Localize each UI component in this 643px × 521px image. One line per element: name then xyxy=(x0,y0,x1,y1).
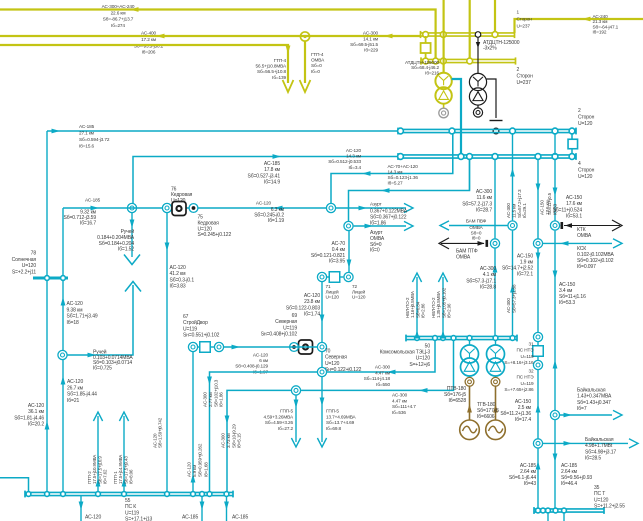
feeder ПТП-2 xyxy=(97,416,99,492)
svg-text:АС-120: АС-120 xyxy=(85,515,101,521)
node ⊚ СтройДвор right xyxy=(214,342,223,351)
node ⊚ БАМ ПТФ (495,243) xyxy=(490,239,499,248)
substation icon Северная xyxy=(299,340,313,354)
wire 220kV line АС-400 xyxy=(0,35,421,37)
node ⊚ 71 Лицей xyxy=(317,272,326,281)
autotransformer АТ2 АТДЦТН-125000 (black) xyxy=(469,73,486,90)
node ⊚ 67 СтройДвор xyxy=(188,342,197,351)
wire x322 Северная-ГПП link xyxy=(321,352,323,368)
node ⊚ БАМ ПВФ (513,225) xyxy=(508,221,517,230)
feeder Байкальская-1 xyxy=(560,414,612,416)
arrow flow left y372 xyxy=(387,370,396,375)
wire x555 bus1-bus2 xyxy=(554,133,556,155)
wire x167 trunk down (АС-120 41.2км) xyxy=(166,213,168,494)
wire x63 lower (АС-120 26.7км) xyxy=(62,360,64,494)
breaker ПС НТЭ xyxy=(537,342,539,346)
arrow flow left АС-300 14.1 xyxy=(384,34,393,39)
feeder Ручей up xyxy=(125,282,141,292)
node ⊚ КТК (555,225) xyxy=(550,221,559,230)
wire 110kV line west 2 (АС-185 17.8км) xyxy=(133,157,398,209)
feeder НВЛ-ПО-2 no.2 xyxy=(442,277,444,336)
feeder south АС-120 xyxy=(80,496,82,521)
wire ПС Т feeder down 1 xyxy=(547,512,549,521)
feeder arrow ГТП-4 omva xyxy=(300,80,311,92)
wire x461-469 bus2 xyxy=(469,159,471,191)
feeder ГПП-5 right xyxy=(321,377,323,442)
wire АС-70+АС-120 line y173.5 xyxy=(331,133,453,203)
vlabel АС-300 x227 xyxy=(221,424,242,448)
bus 110kV section 1 (У=120) xyxy=(398,128,576,130)
junctions ТЭЦ-3 xyxy=(415,336,420,341)
arrow flow right АС-185-2 xyxy=(273,154,282,159)
bus 50 Комсомольская ТЭЦ-3 xyxy=(406,335,517,337)
wire 220kV line АС-300+АС-240 (top) xyxy=(0,10,436,60)
bus 78 Солнечная xyxy=(33,277,68,280)
feeder south АС-185 no.1 xyxy=(201,496,203,521)
generator G2 ТГВ-180 xyxy=(486,420,506,440)
wire x512 (АС-300 11.5км) xyxy=(512,133,514,220)
svg-text:БАМ ПВФ: БАМ ПВФ xyxy=(466,219,487,224)
arrow flow up x47 xyxy=(45,421,50,430)
vlabel АС-120 5.9 xyxy=(187,443,209,477)
arrow flow right АС-185 xyxy=(52,129,61,134)
vlabel АС-300 11.5 xyxy=(506,189,527,218)
node ⊚ ПС НТЭ lower xyxy=(533,360,542,369)
wire АС-70 drop to Лицей xyxy=(348,231,350,272)
wire x495 lower (АС-300 4.1км) xyxy=(494,248,496,336)
wire line y372 (АС-300) xyxy=(210,340,436,494)
node Ручей ⊚ (132,208) xyxy=(127,203,136,212)
wire Солнечная riser xyxy=(62,208,64,277)
connector bar КТК xyxy=(560,222,563,229)
node dot 69 Северная xyxy=(290,343,299,352)
arrow flow right y208 xyxy=(91,206,100,211)
feeder ГПП-5 left xyxy=(295,395,297,442)
wire trunk x47 (АС-120 36.1км) xyxy=(46,131,48,494)
feeder КТК black xyxy=(564,225,620,227)
vlabel ПТП-2 xyxy=(87,455,108,484)
vlabel НВЛ-2 xyxy=(431,287,452,318)
vlabel НВЛ-1 xyxy=(405,291,426,318)
feeder Байкальская-2 xyxy=(543,442,628,444)
wire bus1-bus2 link at АТ1 xyxy=(443,0,445,73)
substation icon 76 Кедровая xyxy=(172,202,186,216)
vlabel АС-150 x540 xyxy=(540,200,550,215)
junctions 110kV bus2 xyxy=(398,154,404,160)
node ⊚ Байкальская-1 (555,415) xyxy=(550,410,559,419)
vlabel АС-300 lower xyxy=(506,284,516,313)
bus 35 ПС Т xyxy=(534,508,604,510)
feeder Азурт 1 xyxy=(336,207,406,209)
svg-text:АС-185: АС-185 xyxy=(182,515,198,521)
wire x538 (АС-150 short) xyxy=(537,159,539,239)
wire АТ1 110kV side to bus xyxy=(452,79,462,155)
junctions 110kV bus1 xyxy=(398,128,404,134)
generator lead G2 xyxy=(491,377,500,386)
feeder НВЛ-ПО-2 no.1 xyxy=(416,277,418,336)
wire Лицей-Северная (АС-120 23.8км) xyxy=(321,282,323,343)
wire СтройДвор drop (АС-120 5.9км) xyxy=(192,352,194,494)
wire x63 bus to node (АС-120 9.38км) xyxy=(62,280,64,351)
generator G1 ТГВ-180 xyxy=(460,420,480,440)
feeder ПТП-1 xyxy=(123,416,125,492)
wire x512 lower xyxy=(512,231,514,336)
junctions bus2 220kV xyxy=(423,58,429,64)
vlabel АС-300 x209 xyxy=(203,379,224,407)
arrow tap-changer АТ2 xyxy=(476,42,480,48)
node ⊚ (62,355) xyxy=(58,350,67,359)
bus 220kV section 1 (У=237) xyxy=(421,32,515,34)
wire x495 (АС-300 11.6км) xyxy=(494,159,496,239)
wire x538 lower (АС-150 1.9км) xyxy=(537,248,539,332)
wire ПС Т feeder down 2 xyxy=(563,512,565,521)
wire АТ2 neutral branch xyxy=(487,79,496,118)
neutral grounding bar АТ2 xyxy=(490,120,503,122)
feeder south АС-185 no.2 xyxy=(226,496,228,521)
connector bar БАМ ПТФ xyxy=(485,240,488,247)
feeder Ручей down xyxy=(131,213,133,257)
generator lead G1 xyxy=(465,377,474,386)
breaker 110kV bus-tie xyxy=(571,133,573,140)
wire АТ2 HV lead xyxy=(477,37,479,74)
junctions ПС Т xyxy=(536,508,541,513)
wire Северная line y347 (АС-120 6км) xyxy=(224,346,318,348)
wire west stub xyxy=(0,478,29,492)
wire x452 bus1 drop xyxy=(452,133,454,174)
wire x555 down (АС-150 17.6км) xyxy=(554,159,556,221)
neutral circle АТ2 on 110kV bus xyxy=(493,128,499,134)
svg-text:АС-185: АС-185 xyxy=(85,198,101,203)
arrow flow down x209 xyxy=(207,377,212,386)
wire 1 Сторона line xyxy=(515,19,643,33)
junctions Солнечная xyxy=(45,276,50,281)
wire 220kV feeder from north 2 xyxy=(469,0,471,59)
node ⊚ (322,372) xyxy=(317,367,326,376)
arrow flow left АС-120 6.3км xyxy=(274,206,283,211)
node ⊚ КСК (538,243) xyxy=(533,239,542,248)
bus 110kV section 2 xyxy=(398,154,576,156)
node dot Кедровая (193,208) xyxy=(189,204,198,213)
unit transformer Т1 xyxy=(469,340,471,346)
vlabel x167 xyxy=(153,417,163,448)
arrow flow left y390 xyxy=(419,388,428,393)
node ⊚ 72 Лицей xyxy=(344,272,353,281)
wire x555 to ПС Т bus xyxy=(554,420,556,509)
bus 220kV section 2 xyxy=(421,58,516,60)
breaker Лицей xyxy=(327,276,330,278)
arrow flow left y190 xyxy=(381,188,390,193)
wire line y390 (АС-300) xyxy=(227,340,454,494)
autotransformer АТ1 АТДЦТН-125000 (yellow) xyxy=(435,73,451,89)
node ⊚ ПС НТЭ upper xyxy=(533,332,542,341)
node ⊚ Кедровая (167,208) xyxy=(162,203,171,212)
wire 220kV line to ГТП-4 xyxy=(0,45,288,83)
wire АС-70 line y190.5 xyxy=(349,159,470,222)
node ⊚ Азурт-2 (349,226) xyxy=(344,221,353,230)
arrow flow down ГТП-4 line xyxy=(286,46,291,55)
wire ПС НТЭ down (АС-150 2.5км) xyxy=(537,370,539,439)
wire 110kV line west (АС-185 27.1км) xyxy=(47,130,398,132)
unit transformer Т2 xyxy=(495,340,497,346)
wire 220kV feeder from north 3 xyxy=(494,0,496,32)
vlabel АС-150 x548 xyxy=(547,192,557,215)
wire x555 lower (АС-150 3.4км) xyxy=(554,231,556,411)
arrow flow left on АС-400 xyxy=(156,34,165,39)
node ⊚ Азурт (331,208) xyxy=(326,203,335,212)
vlabel ПТП-1 xyxy=(113,455,134,484)
arrow flow left y173 xyxy=(362,171,371,176)
neutral point circle АТ2 on bus1 xyxy=(475,32,481,38)
svg-text:АС-185: АС-185 xyxy=(232,515,248,521)
feeder arrow ГТП-4 xyxy=(283,80,294,92)
breaker bus-tie 220kV xyxy=(425,36,427,43)
feeder КСК cyan xyxy=(543,242,612,244)
feeder БАМ ПВФ xyxy=(449,225,508,227)
node ⊚ Байкальская-2 (538,443) xyxy=(533,439,542,448)
arrow flow left 1 Сторона xyxy=(582,17,591,22)
node ⊚ 70 Северная xyxy=(317,342,326,351)
wire x538 to ПС Т bus xyxy=(537,448,539,509)
wire ГТП-4 second feeder xyxy=(304,41,306,83)
tap ring ГТП-4 on АС-400 xyxy=(300,32,309,41)
feeder Азурт 2 xyxy=(354,225,406,227)
breaker СтройДвор xyxy=(198,346,200,348)
svg-text:АС-120: АС-120 xyxy=(256,201,272,206)
junctions bus1 220kV xyxy=(423,32,429,38)
arrow flow left on АС-300+АС-240 xyxy=(130,7,139,12)
junctions ПС К xyxy=(26,492,31,497)
node ⊚ (296,390) xyxy=(291,386,300,395)
svg-text:Азурт: Азурт xyxy=(370,202,383,207)
arrow flow down x227 xyxy=(225,416,230,425)
feeder БАМ ПТФ black xyxy=(441,242,484,244)
bus 55 ПС К xyxy=(25,491,233,493)
wire line 63-331 y208 xyxy=(63,207,331,209)
